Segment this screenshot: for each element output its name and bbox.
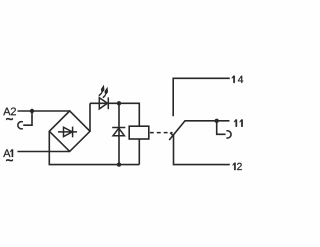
LED light arrow 2 xyxy=(103,88,108,98)
wire bridge right corner up to LED rail xyxy=(89,103,91,131)
terminal 11 label xyxy=(234,120,243,127)
terminal A1 label xyxy=(3,149,13,161)
plug contact 11 (socket arc) xyxy=(226,131,231,138)
LED light arrow 1 xyxy=(99,86,104,96)
wire coil bottom to rail xyxy=(138,139,140,165)
bridge rectifier internal diode xyxy=(58,127,77,138)
freewheel diode D2 xyxy=(112,128,125,136)
wire LED rail to coil top xyxy=(90,103,139,126)
wire terminal 14 branch xyxy=(173,78,230,116)
node A2 junction xyxy=(30,109,34,113)
plug contact A2 (socket arc) xyxy=(18,122,23,129)
LED D1 xyxy=(99,97,108,109)
node terminal 11 junction xyxy=(215,119,219,123)
wire A2 to bridge xyxy=(18,110,71,112)
bridge rectifier BR1 (diamond) xyxy=(49,111,90,151)
node bottom rail junction xyxy=(117,162,121,166)
terminal A2 label xyxy=(3,108,16,120)
wire A2 plug stub xyxy=(23,111,32,125)
changeover contact moving arm to terminal 11 xyxy=(169,121,229,140)
terminal 12 label xyxy=(233,163,242,170)
NC contact tick xyxy=(170,133,174,137)
mechanical link (dashed) xyxy=(150,132,173,134)
node LED rail junction xyxy=(117,101,121,105)
relay coil K1 xyxy=(129,126,149,139)
wire terminal 12 branch xyxy=(174,135,230,164)
wire A1 to bridge bottom corner xyxy=(17,151,69,153)
wire freewheel diode branch xyxy=(118,103,120,164)
wire bridge left corner down to bottom rail xyxy=(49,131,139,164)
terminal 14 label xyxy=(232,76,243,83)
wire 11 plug stub xyxy=(217,121,226,135)
